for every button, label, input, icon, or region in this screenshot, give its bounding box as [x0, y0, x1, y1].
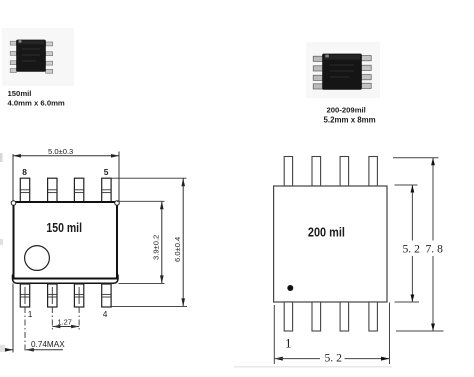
top pin d: [369, 157, 378, 187]
pin1 dot marker: [287, 285, 293, 291]
pin 8 label: [22, 167, 27, 177]
top pin 5: [102, 178, 111, 202]
extension line pin bottom for 6.0 dim: [112, 305, 188, 307]
svg-text:200-209mil: 200-209mil: [327, 106, 366, 115]
top pin a: [284, 157, 292, 187]
pin 1 label right drawing: [285, 336, 292, 351]
caption 200-209mil: [327, 106, 366, 115]
svg-text:5: 5: [104, 167, 109, 177]
bottom pin c: [340, 302, 349, 331]
dimension 7.8 vertical: [426, 158, 444, 331]
extension line 5.2 top: [395, 184, 418, 186]
pin 5 label: [104, 167, 109, 177]
photo chip 150mil background: [2, 28, 74, 86]
svg-text:5. 2: 5. 2: [325, 352, 343, 365]
dimension 3.9±0.2: [152, 201, 164, 283]
centerline pin 3: [78, 307, 80, 330]
extension line 7.8 top: [393, 157, 439, 159]
caption 5.2mm x 8mm: [324, 116, 376, 125]
dimension 1.27 pitch: [52, 318, 79, 329]
extension line body top for 3.9 dim: [117, 200, 165, 202]
svg-text:200 mil: 200 mil: [308, 225, 345, 240]
extension line body bottom for 3.9 dim: [119, 282, 165, 284]
bottom pin 4: [102, 284, 111, 307]
scan artifact left edge: [0, 153, 5, 352]
svg-text:5.2mm x 8mm: 5.2mm x 8mm: [324, 116, 376, 125]
extension line right of 5.0 dim: [118, 152, 120, 202]
dimension 5.2 horizontal bottom: [274, 352, 389, 365]
extension line 5.2 bottom: [395, 301, 420, 303]
extension line 7.8 bottom: [396, 330, 444, 332]
svg-text:150mil: 150mil: [8, 89, 32, 98]
bottom pin d: [369, 302, 378, 331]
corner dot top-right: [115, 201, 120, 206]
svg-text:4.0mm x 6.0mm: 4.0mm x 6.0mm: [8, 99, 65, 108]
top pin 8: [20, 178, 29, 202]
extension line left of 5.0 dim: [12, 154, 14, 201]
top pin 6: [74, 178, 83, 202]
svg-text:6.0±0.4: 6.0±0.4: [173, 237, 182, 262]
scan artifact faint line bottom: [234, 366, 392, 367]
photo chip 200mil body: [322, 54, 362, 90]
extension line pin top for 6.0 dim: [112, 177, 187, 179]
svg-text:4: 4: [103, 309, 108, 319]
dimension 5.0±0.3 top: [13, 147, 119, 157]
dimension 0.74MAX: [3, 340, 65, 352]
photo chip 150mil body: [16, 40, 46, 72]
top pin 7: [48, 178, 57, 202]
svg-text:1: 1: [285, 336, 292, 351]
bottom pin 3: [74, 284, 83, 307]
svg-text:8: 8: [22, 167, 27, 177]
bottom pin a: [284, 302, 292, 331]
svg-text:1.27: 1.27: [58, 318, 72, 327]
dimension 6.0±0.4: [173, 178, 185, 306]
photo chip 200mil pins right: [361, 56, 371, 89]
label 150 mil: [46, 220, 82, 235]
svg-text:5. 2: 5. 2: [403, 243, 421, 256]
photo chip 150mil pins left: [10, 41, 16, 72]
label 200 mil: [308, 225, 345, 240]
photo chip 200mil background: [306, 42, 380, 98]
centerline pin 2: [51, 307, 53, 330]
corner dot top-left: [11, 201, 16, 206]
package body 150mil: [14, 202, 118, 279]
svg-text:0.74MAX: 0.74MAX: [31, 340, 65, 349]
svg-text:1: 1: [28, 309, 33, 319]
photo chip 200mil pins left: [313, 56, 323, 89]
svg-text:7. 8: 7. 8: [426, 243, 444, 256]
top pin c: [340, 157, 349, 187]
extension line bottom-left 5.2: [273, 305, 275, 364]
bottom pin b: [312, 302, 321, 331]
caption 4.0mm x 6.0mm: [8, 99, 65, 108]
extension line bottom-right 5.2: [389, 303, 391, 365]
pin 4 number label: [103, 309, 108, 319]
body bottom lip: [13, 275, 119, 284]
caption 150mil: [8, 89, 32, 98]
body edge extension line bottom-left: [12, 284, 14, 353]
bottom pin 1: [20, 284, 29, 307]
svg-text:5.0±0.3: 5.0±0.3: [48, 147, 73, 156]
dimension 5.2 vertical: [403, 185, 421, 302]
svg-text:150 mil: 150 mil: [46, 220, 82, 235]
photo chip 150mil pins right: [46, 42, 53, 73]
pin1 index circle: [25, 246, 50, 271]
top pin b: [312, 157, 321, 187]
svg-text:3.9±0.2: 3.9±0.2: [152, 235, 161, 260]
bottom pin 2: [48, 284, 57, 307]
centerline pin 1: [24, 307, 26, 352]
package body 200mil: [274, 186, 387, 302]
pin 1 number label: [28, 309, 33, 319]
